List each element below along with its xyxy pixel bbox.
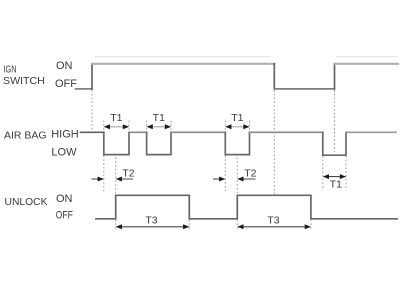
svg-text:LOW: LOW: [51, 146, 77, 158]
svg-text:T1: T1: [110, 112, 122, 124]
svg-text:OFF: OFF: [55, 78, 77, 90]
svg-text:IGN: IGN: [4, 64, 17, 76]
svg-text:T1: T1: [153, 112, 165, 124]
svg-text:T1: T1: [330, 179, 342, 191]
svg-text:AIR BAG: AIR BAG: [4, 130, 47, 142]
svg-text:HIGH: HIGH: [51, 128, 79, 140]
svg-text:ON: ON: [56, 193, 73, 205]
svg-text:T2: T2: [122, 167, 134, 179]
svg-text:T1: T1: [231, 112, 243, 124]
svg-text:UNLOCK: UNLOCK: [5, 196, 48, 208]
svg-text:ON: ON: [56, 60, 73, 72]
svg-text:OFF: OFF: [56, 209, 73, 221]
svg-text:T2: T2: [244, 167, 256, 179]
svg-text:T3: T3: [267, 214, 279, 226]
svg-text:SWITCH: SWITCH: [3, 75, 45, 87]
svg-text:T3: T3: [145, 214, 157, 226]
